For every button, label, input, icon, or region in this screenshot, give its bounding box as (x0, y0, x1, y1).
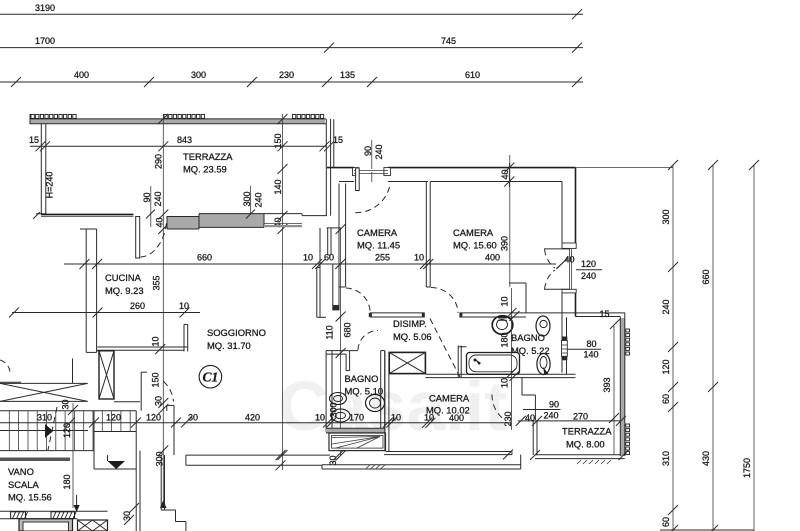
svg-text:120: 120 (146, 413, 161, 423)
svg-text:80: 80 (587, 339, 597, 349)
svg-text:60: 60 (661, 517, 671, 527)
svg-text:MQ. 5.06: MQ. 5.06 (393, 331, 432, 342)
svg-text:290: 290 (154, 154, 164, 169)
svg-text:60: 60 (661, 394, 671, 404)
svg-text:240: 240 (661, 299, 671, 314)
svg-text:430: 430 (701, 451, 711, 466)
svg-text:180: 180 (62, 474, 72, 489)
svg-text:10: 10 (500, 378, 510, 388)
svg-text:TERRAZZA: TERRAZZA (562, 426, 612, 437)
svg-text:660: 660 (197, 253, 212, 263)
svg-text:1750: 1750 (742, 458, 752, 478)
svg-text:300: 300 (191, 70, 206, 80)
svg-text:40: 40 (525, 413, 535, 423)
svg-text:745: 745 (441, 36, 456, 46)
svg-text:230: 230 (279, 70, 294, 80)
svg-text:310: 310 (661, 451, 671, 466)
svg-text:240: 240 (254, 192, 264, 207)
svg-text:400: 400 (74, 70, 89, 80)
svg-text:60: 60 (324, 253, 334, 263)
svg-text:180: 180 (500, 332, 510, 347)
svg-text:10: 10 (414, 253, 424, 263)
svg-text:90: 90 (142, 192, 152, 202)
svg-text:680: 680 (343, 322, 353, 337)
svg-text:170: 170 (349, 413, 364, 423)
svg-text:843: 843 (177, 135, 192, 145)
svg-text:660: 660 (701, 269, 711, 284)
svg-text:400: 400 (485, 253, 500, 263)
svg-text:390: 390 (500, 236, 510, 251)
svg-text:355: 355 (152, 275, 162, 290)
svg-text:393: 393 (602, 377, 612, 392)
svg-text:SCALA: SCALA (8, 479, 39, 490)
svg-text:90: 90 (549, 400, 559, 410)
svg-text:240: 240 (544, 411, 559, 421)
svg-text:240: 240 (581, 271, 596, 281)
svg-text:MQ. 9.23: MQ. 9.23 (105, 285, 144, 296)
svg-text:BAGNO: BAGNO (345, 373, 379, 384)
svg-text:110: 110 (325, 325, 335, 339)
svg-text:120: 120 (106, 413, 121, 423)
svg-text:15: 15 (333, 135, 343, 145)
svg-text:40: 40 (500, 169, 510, 179)
svg-text:10: 10 (151, 336, 161, 346)
svg-text:MQ. 15.60: MQ. 15.60 (453, 240, 497, 251)
svg-text:420: 420 (245, 413, 260, 423)
svg-text:90: 90 (363, 146, 373, 156)
svg-text:15: 15 (600, 309, 610, 319)
svg-text:30: 30 (188, 413, 198, 423)
svg-text:BAGNO: BAGNO (511, 332, 545, 343)
svg-text:240: 240 (374, 144, 384, 159)
svg-text:TERRAZZA: TERRAZZA (183, 151, 233, 162)
svg-text:260: 260 (130, 301, 145, 311)
svg-text:255: 255 (375, 253, 390, 263)
svg-text:300: 300 (242, 191, 252, 206)
svg-text:610: 610 (465, 70, 480, 80)
svg-text:310: 310 (37, 413, 52, 423)
svg-text:240: 240 (153, 191, 163, 206)
svg-text:10: 10 (303, 253, 313, 263)
svg-text:270: 270 (573, 412, 588, 422)
svg-text:120: 120 (581, 259, 596, 269)
svg-text:140: 140 (584, 350, 599, 360)
svg-text:MQ. 8.00: MQ. 8.00 (566, 439, 605, 450)
svg-text:CUCINA: CUCINA (105, 272, 142, 283)
svg-text:CAMERA: CAMERA (453, 227, 494, 238)
svg-text:10: 10 (315, 413, 325, 423)
svg-text:150: 150 (273, 133, 283, 148)
svg-text:CAMERA: CAMERA (357, 227, 398, 238)
svg-text:40: 40 (155, 217, 165, 227)
svg-text:C1: C1 (203, 370, 219, 385)
svg-text:VANO: VANO (8, 466, 34, 477)
svg-text:300: 300 (329, 402, 339, 417)
svg-text:120: 120 (661, 359, 671, 374)
svg-text:SOGGIORNO: SOGGIORNO (207, 327, 266, 338)
svg-text:135: 135 (340, 70, 355, 80)
svg-text:3190: 3190 (35, 3, 55, 13)
svg-text:230: 230 (503, 411, 513, 426)
svg-text:30: 30 (61, 399, 71, 409)
svg-text:CAMERA: CAMERA (429, 393, 470, 404)
svg-text:H=240: H=240 (45, 172, 55, 199)
svg-text:30: 30 (122, 511, 132, 521)
svg-text:MQ. 15.56: MQ. 15.56 (8, 492, 52, 503)
svg-text:MQ. 31.70: MQ. 31.70 (207, 340, 251, 351)
svg-text:10: 10 (179, 301, 189, 311)
svg-text:15: 15 (29, 135, 39, 145)
svg-text:300: 300 (661, 209, 671, 224)
svg-text:10: 10 (500, 296, 510, 306)
svg-text:150: 150 (151, 372, 161, 387)
svg-text:DISIMP.: DISIMP. (393, 318, 427, 329)
svg-text:MQ. 11.45: MQ. 11.45 (357, 240, 400, 251)
svg-text:MQ. 23.59: MQ. 23.59 (183, 164, 227, 175)
svg-text:400: 400 (449, 413, 464, 423)
svg-text:Casa.it: Casa.it (278, 367, 508, 445)
svg-text:1700: 1700 (35, 36, 55, 46)
svg-text:140: 140 (273, 179, 283, 194)
